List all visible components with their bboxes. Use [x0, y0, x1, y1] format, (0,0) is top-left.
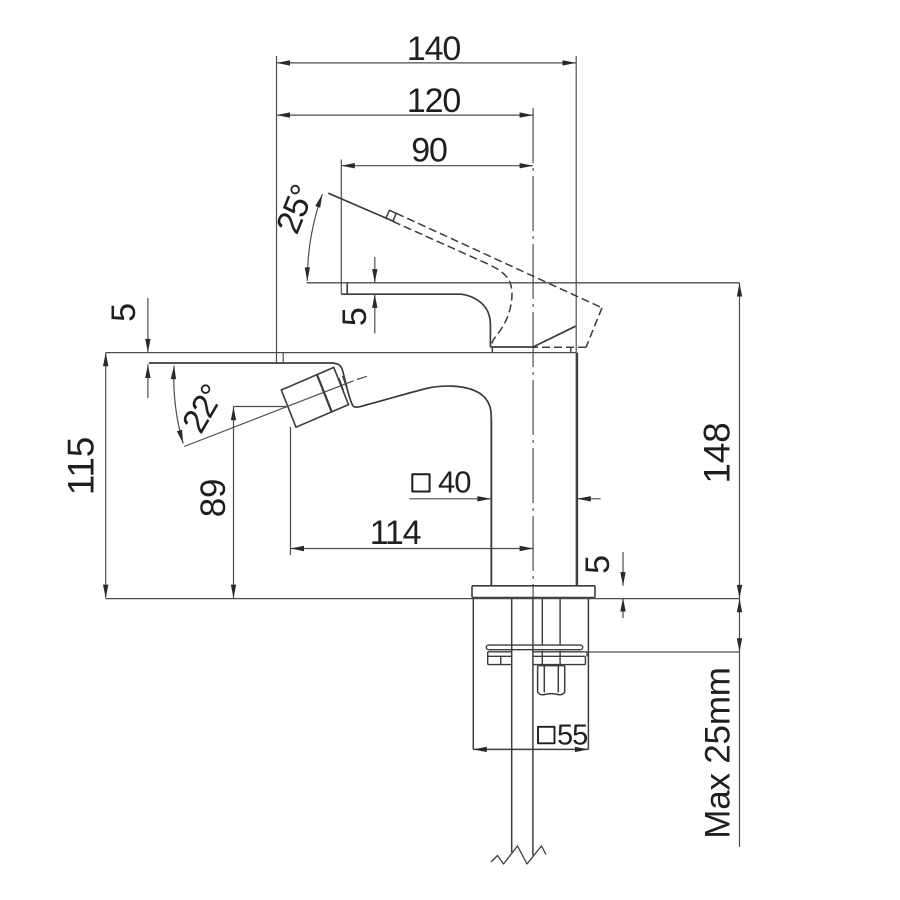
aerator axis line	[184, 381, 353, 447]
aerator axis dash	[357, 376, 367, 379]
25 degree arc	[307, 194, 322, 281]
upper spout bottom edge curving into body	[341, 294, 490, 347]
joint line 2	[343, 376, 348, 389]
22 degree arc	[174, 366, 183, 444]
aerator body box	[281, 367, 348, 427]
supply pipe right line	[532, 598, 534, 855]
threaded stud right	[559, 598, 561, 645]
base plate 5 dimension	[622, 552, 624, 618]
plinth left tick	[491, 347, 493, 353]
svg-text:90: 90	[411, 132, 447, 170]
89 leader line	[234, 406, 289, 408]
upper 5 dimension	[374, 257, 376, 333]
handle closed dashed top edge	[396, 213, 602, 307]
break squiggle on pipes	[491, 846, 546, 864]
base plate	[472, 586, 595, 598]
svg-text:89: 89	[194, 479, 233, 518]
dimension 140 line	[277, 56, 577, 586]
handle nub	[386, 210, 396, 221]
deck surface extension line	[106, 598, 740, 600]
centerline of faucet body	[532, 108, 534, 598]
body right edge	[576, 353, 578, 586]
svg-text:40: 40	[438, 465, 471, 500]
svg-text:Max 25mm: Max 25mm	[699, 667, 738, 839]
svg-text:115: 115	[61, 437, 102, 495]
left 5 dimension	[147, 298, 149, 398]
square40 dimension lines	[409, 498, 600, 500]
dimension 90 arrows	[341, 163, 533, 168]
horseshoe washer capsule	[486, 645, 582, 650]
lower spout outline	[149, 363, 491, 586]
upper spout outlet face	[346, 284, 348, 294]
washer top extension line	[588, 651, 740, 653]
handle closed dashed head right edge	[586, 308, 602, 348]
svg-text:120: 120	[407, 82, 460, 120]
body left edge lower	[490, 420, 492, 586]
114 dimension line	[291, 548, 534, 550]
square40 symbol	[412, 474, 429, 491]
148 dimension line	[739, 283, 741, 599]
under-deck max thickness rectangle	[473, 598, 588, 749]
dimension 120 line	[277, 115, 534, 363]
handle lifted solid edge	[328, 193, 395, 222]
22 degree arc arrows	[171, 365, 186, 444]
washer bar lower	[488, 652, 586, 665]
dimension 90 line	[341, 160, 533, 294]
svg-text:5: 5	[105, 304, 143, 322]
upper body bottom lip	[490, 346, 533, 348]
89 dimension line	[233, 407, 235, 599]
square55 arrows	[473, 747, 588, 752]
svg-text:114: 114	[370, 514, 421, 552]
top reference line (spout top level, 148 extension)	[307, 282, 740, 284]
dimension 140 arrows	[277, 60, 577, 65]
joint line 1	[339, 378, 344, 391]
body right slanted top	[533, 326, 576, 347]
max 25mm dimension line	[739, 599, 741, 847]
square55 symbol	[538, 727, 555, 744]
handle closed dashed lower edge with front curve	[393, 221, 512, 345]
supply pipe left line	[511, 598, 513, 852]
mounting nut	[538, 666, 565, 695]
threaded stud left	[541, 598, 543, 645]
dimension 120 arrows	[277, 112, 534, 117]
115 dimension line	[105, 353, 107, 599]
114 extension line	[290, 427, 292, 555]
plinth right tick	[570, 347, 572, 352]
deck line (upper faucet mounting plane)	[106, 352, 577, 354]
svg-text:5: 5	[579, 556, 617, 574]
svg-text:5: 5	[336, 308, 374, 326]
svg-text:148: 148	[697, 422, 738, 483]
aerator divider thick	[317, 375, 332, 412]
25 degree arc arrows	[305, 193, 325, 281]
svg-text:140: 140	[407, 30, 460, 68]
handle closed dashed bottom edge	[533, 346, 586, 348]
washer bar upper	[488, 652, 587, 657]
svg-text:55: 55	[557, 720, 587, 752]
